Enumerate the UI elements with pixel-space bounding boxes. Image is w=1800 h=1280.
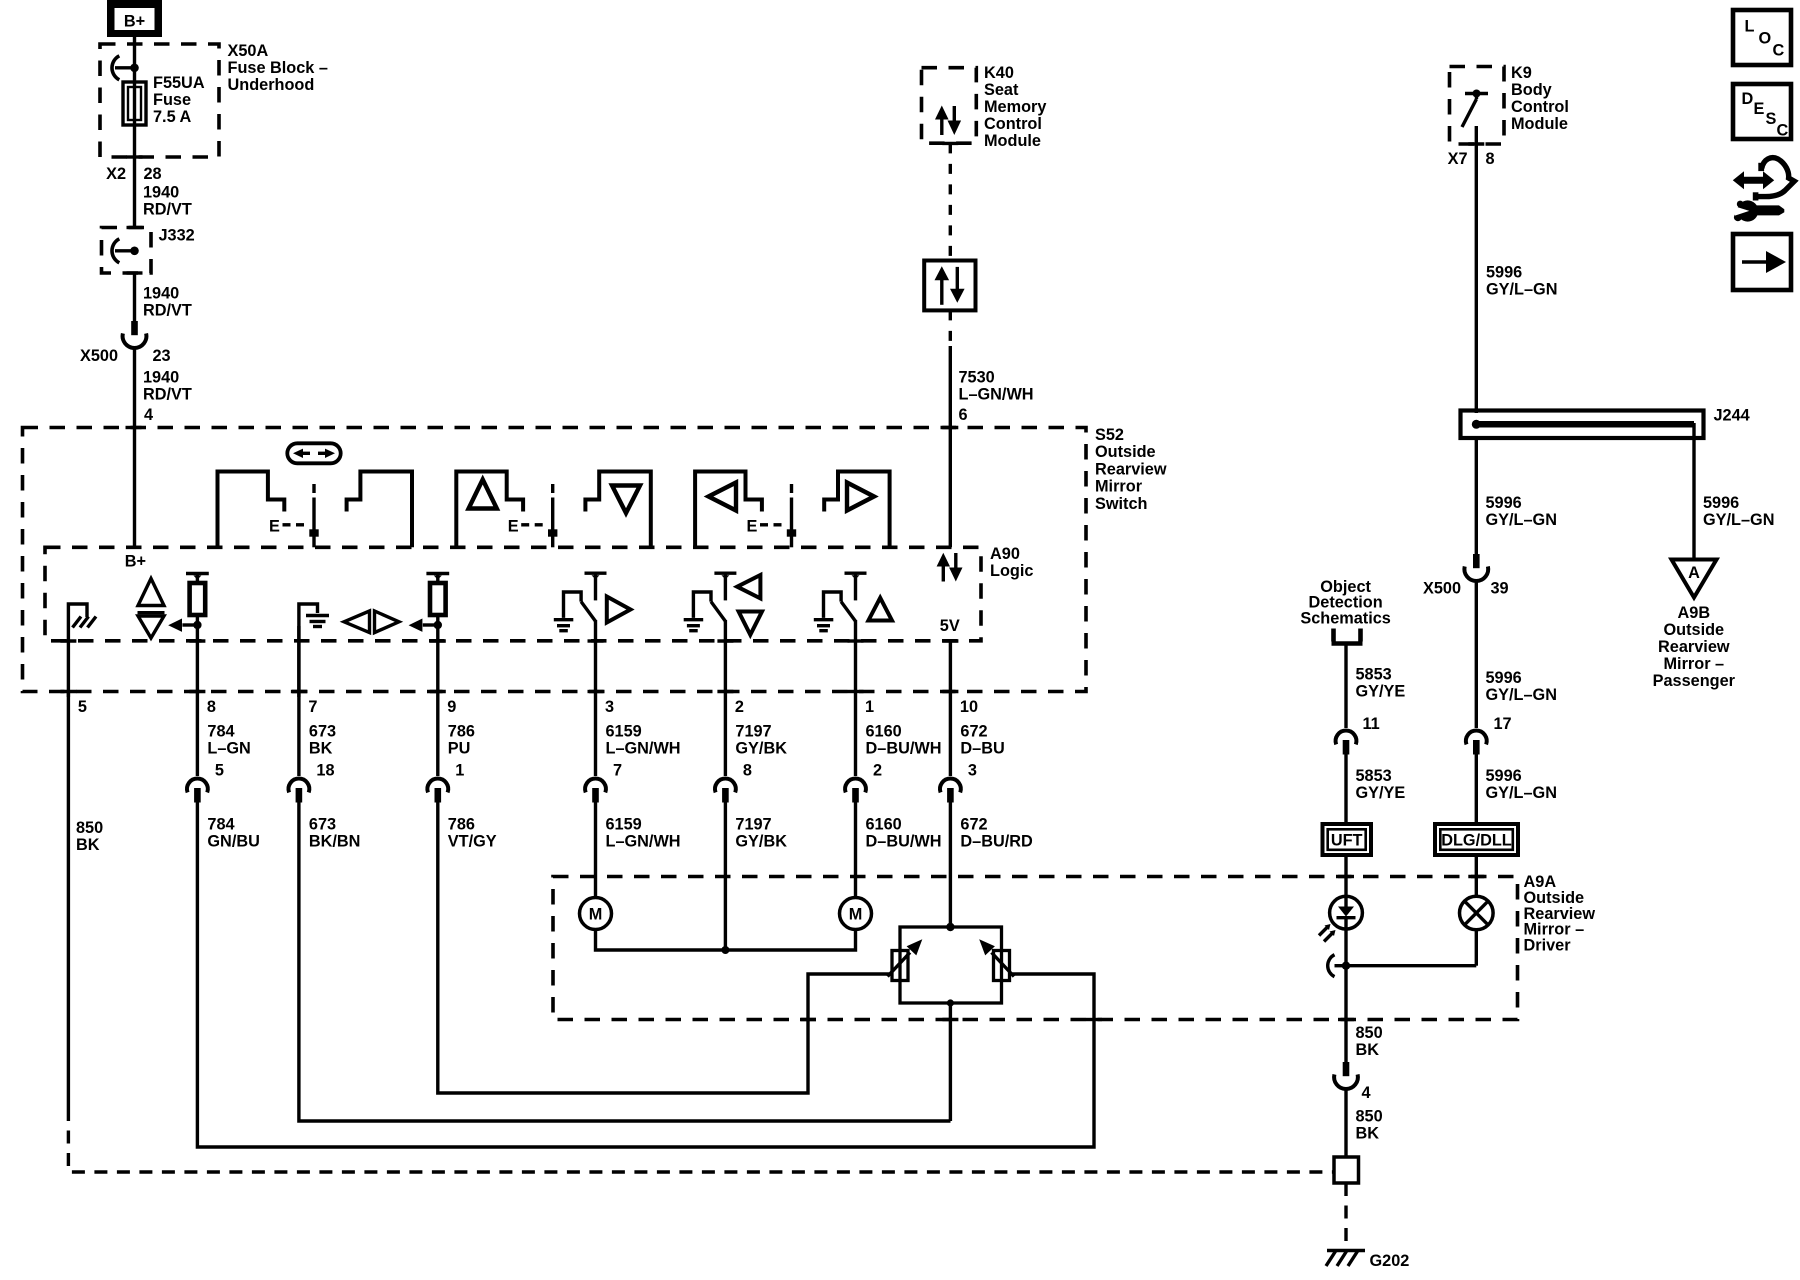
svg-text:1940: 1940 bbox=[143, 369, 179, 387]
in-line connector pin 18 bbox=[289, 779, 310, 803]
svg-text:C: C bbox=[1773, 42, 1785, 60]
in-line connector pin 2 bbox=[845, 779, 866, 803]
svg-text:6159: 6159 bbox=[606, 723, 642, 741]
label 5853 GY/YE bbox=[1356, 767, 1406, 802]
svg-text:L: L bbox=[1745, 18, 1755, 36]
label 786 bbox=[448, 723, 475, 758]
pin label X2 28 bbox=[106, 165, 162, 183]
dashed wire to G202 bbox=[1344, 1183, 1347, 1248]
svg-text:39: 39 bbox=[1491, 580, 1509, 598]
switch contact left/right select right bbox=[347, 472, 412, 548]
motor common wire bbox=[596, 930, 856, 951]
connector pin 11 bbox=[1336, 731, 1357, 755]
edge ticks at wire crossings bbox=[60, 143, 1484, 1019]
linkage label E bbox=[269, 518, 304, 536]
label 5996 GY/L-GN bbox=[1703, 494, 1774, 529]
photodiode (object detection LED) bbox=[1319, 896, 1362, 965]
in-line connector pin 4 bbox=[1334, 1062, 1358, 1089]
svg-text:E: E bbox=[508, 518, 519, 536]
connector terminal in J332 bbox=[112, 239, 139, 263]
function box UFT bbox=[1323, 824, 1372, 855]
dashed wire 850 BK to splice box bbox=[68, 1108, 1334, 1172]
svg-text:L–GN/WH: L–GN/WH bbox=[606, 832, 681, 850]
ground G202 bbox=[1326, 1251, 1365, 1267]
junction motor common bbox=[721, 946, 729, 954]
wire segment pin 7 to connector bbox=[297, 626, 300, 776]
svg-text:5V: 5V bbox=[940, 617, 960, 635]
svg-text:J244: J244 bbox=[1714, 407, 1750, 425]
svg-text:D–BU/WH: D–BU/WH bbox=[866, 739, 942, 757]
wire J244 to A9B bbox=[1692, 423, 1695, 560]
svg-text:Rearview: Rearview bbox=[1095, 460, 1167, 478]
svg-text:5: 5 bbox=[78, 698, 87, 716]
wire B+ into S52 bbox=[133, 428, 136, 548]
svg-text:Module: Module bbox=[1511, 115, 1568, 133]
icon DESC bbox=[1733, 84, 1791, 140]
icon forward arrow bbox=[1733, 234, 1791, 290]
wire 673 BK/BN run bbox=[299, 802, 951, 1122]
svg-text:Underhood: Underhood bbox=[228, 76, 315, 94]
pin label X7 8 bbox=[1448, 150, 1495, 168]
chassis ground (pin 5) bbox=[68, 604, 96, 697]
wire 850 BK below A9A bbox=[1344, 966, 1347, 1062]
svg-text:GY/L–GN: GY/L–GN bbox=[1486, 511, 1557, 529]
mirror position sensor assembly bbox=[900, 923, 1002, 1007]
svg-text:1940: 1940 bbox=[143, 285, 179, 303]
svg-text:GN/BU: GN/BU bbox=[207, 832, 259, 850]
svg-text:PU: PU bbox=[448, 739, 471, 757]
label S52 Outside Rearview Mirror Switch bbox=[1095, 426, 1167, 513]
svg-text:850: 850 bbox=[1356, 1108, 1383, 1126]
switch left/down (pin 2) bbox=[684, 573, 737, 631]
off-page reference bracket bbox=[1332, 629, 1363, 644]
logic block A90 dashed box bbox=[45, 547, 981, 641]
dashed wire below box bbox=[949, 310, 952, 346]
svg-text:4: 4 bbox=[144, 406, 153, 424]
svg-text:L–GN: L–GN bbox=[207, 739, 250, 757]
svg-text:X7: X7 bbox=[1448, 150, 1468, 168]
wire to UFT bbox=[1344, 754, 1347, 825]
label Object Detection Schematics bbox=[1300, 578, 1391, 627]
icon LOC bbox=[1733, 10, 1791, 65]
marker triangle left bbox=[737, 575, 760, 598]
linkage label E bbox=[747, 518, 782, 536]
svg-text:Control: Control bbox=[1511, 98, 1569, 116]
label 5996 GY/L-GN bbox=[1486, 494, 1557, 529]
svg-text:8: 8 bbox=[743, 762, 752, 780]
wire 784 GN/BU run bbox=[197, 802, 1094, 1148]
svg-text:J332: J332 bbox=[159, 227, 195, 245]
position sense resistor (pin 9) bbox=[409, 574, 450, 632]
label X50A Fuse Block - Underhood bbox=[228, 42, 328, 94]
svg-text:C: C bbox=[1777, 122, 1789, 140]
switch contact up/down adjust right bbox=[585, 472, 650, 548]
marker triangle down bbox=[739, 612, 762, 635]
label 5996 GY/L-GN bbox=[1486, 264, 1557, 299]
wire segment pin 10 to connector bbox=[949, 641, 952, 776]
svg-text:4: 4 bbox=[1362, 1084, 1371, 1102]
seat memory mirror-position box bbox=[924, 261, 975, 311]
icon data link arrows and wrench bbox=[1733, 158, 1795, 222]
svg-text:Module: Module bbox=[984, 132, 1041, 150]
svg-text:784: 784 bbox=[207, 723, 234, 741]
in-line connector X500 pin 23 bbox=[123, 321, 147, 348]
svg-text:673: 673 bbox=[309, 723, 336, 741]
svg-text:A: A bbox=[1688, 564, 1700, 582]
svg-text:L–GN/WH: L–GN/WH bbox=[606, 739, 681, 757]
in-line connector pin 8 bbox=[715, 779, 736, 803]
svg-text:Memory: Memory bbox=[984, 98, 1046, 116]
in-line connector pin 3 bbox=[940, 779, 961, 803]
svg-text:BK/BN: BK/BN bbox=[309, 832, 361, 850]
switch contact left/right adjust right bbox=[824, 472, 889, 548]
svg-text:UFT: UFT bbox=[1331, 832, 1363, 850]
wire UFT to photodiode bbox=[1344, 855, 1347, 897]
label 784 bbox=[207, 723, 250, 758]
svg-text:9: 9 bbox=[447, 698, 456, 716]
svg-text:6160: 6160 bbox=[866, 723, 902, 741]
label 6160 D&#8211;BU/WH bbox=[866, 816, 942, 851]
svg-text:GY/BK: GY/BK bbox=[735, 832, 787, 850]
svg-text:7530: 7530 bbox=[959, 369, 995, 387]
potentiometer feed resistor (pin 8) bbox=[168, 574, 209, 632]
marker triangle right bbox=[607, 597, 631, 623]
connector pin 17 bbox=[1466, 731, 1487, 755]
svg-text:D–BU/WH: D–BU/WH bbox=[866, 832, 942, 850]
svg-text:6160: 6160 bbox=[866, 816, 902, 834]
motor M vertical bbox=[840, 898, 872, 930]
svg-text:Outside: Outside bbox=[1095, 443, 1156, 461]
connector terminal in fuse block bbox=[112, 56, 139, 80]
label 1940 RD/VT bbox=[143, 369, 192, 404]
wire 5853 to connector 11 bbox=[1344, 644, 1347, 729]
wire to DLG/DLL bbox=[1475, 754, 1478, 825]
svg-text:1940: 1940 bbox=[143, 184, 179, 202]
svg-text:673: 673 bbox=[309, 816, 336, 834]
label K40 Seat Memory Control Module bbox=[984, 64, 1046, 150]
detent linkage up/down adjust bbox=[548, 484, 557, 547]
svg-text:28: 28 bbox=[144, 165, 162, 183]
sensor common wire down bbox=[949, 1003, 952, 1121]
svg-text:GY/YE: GY/YE bbox=[1356, 784, 1406, 802]
label 6159 bbox=[606, 723, 681, 758]
svg-text:7: 7 bbox=[613, 762, 622, 780]
svg-text:B+: B+ bbox=[125, 553, 146, 571]
svg-text:X500: X500 bbox=[80, 347, 118, 365]
wire segment pin 3 to connector bbox=[594, 620, 597, 776]
data arrows from K40 bbox=[937, 553, 963, 582]
label 7530 L-GN/WH bbox=[959, 369, 1034, 404]
svg-text:DLG/DLL: DLG/DLL bbox=[1441, 832, 1512, 850]
wire J332 to X500 bbox=[133, 273, 136, 321]
mirror A9A dashed box bbox=[553, 877, 1518, 1020]
label 7197 GY/BK bbox=[735, 816, 787, 851]
svg-text:E: E bbox=[269, 518, 280, 536]
detent linkage left/right adjust bbox=[787, 484, 796, 547]
svg-text:10: 10 bbox=[960, 698, 978, 716]
svg-text:672: 672 bbox=[960, 723, 987, 741]
label F55UA Fuse 7.5 A bbox=[153, 74, 205, 126]
mirror select arrows in K40 bbox=[935, 106, 961, 136]
marker triangle down (pair2 right) bbox=[612, 486, 640, 514]
svg-text:E: E bbox=[1754, 100, 1765, 118]
svg-text:Passenger: Passenger bbox=[1653, 672, 1736, 690]
svg-text:X50A: X50A bbox=[228, 42, 269, 60]
wire 7197 to motor common bbox=[724, 802, 727, 951]
svg-text:786: 786 bbox=[448, 723, 475, 741]
label 7197 bbox=[735, 723, 787, 758]
svg-text:1: 1 bbox=[865, 698, 874, 716]
svg-text:D–BU: D–BU bbox=[960, 739, 1004, 757]
svg-text:23: 23 bbox=[153, 347, 171, 365]
label 672 D&#8211;BU/RD bbox=[960, 816, 1033, 851]
svg-text:7197: 7197 bbox=[735, 723, 771, 741]
svg-text:GY/L–GN: GY/L–GN bbox=[1703, 511, 1774, 529]
wire B+ to fuse bbox=[133, 37, 136, 83]
label 673 BK/BN bbox=[309, 816, 361, 851]
driver transistor symbol in K9 bbox=[1462, 90, 1488, 145]
svg-text:RD/VT: RD/VT bbox=[143, 301, 192, 319]
svg-text:Control: Control bbox=[984, 115, 1042, 133]
label 786 VT/GY bbox=[448, 816, 497, 851]
svg-text:BK: BK bbox=[1356, 1124, 1380, 1142]
wire DLG/DLL to lamp bbox=[1475, 855, 1478, 897]
mirror select oval indicator bbox=[287, 443, 340, 463]
svg-text:Rearview: Rearview bbox=[1658, 638, 1730, 656]
mirror A9B symbol bbox=[1672, 560, 1717, 598]
motor M horizontal bbox=[580, 898, 612, 930]
in-line connector X500 pin 39 bbox=[1464, 554, 1488, 581]
switch S52 dashed box bbox=[23, 428, 1087, 692]
label 6159 L&#8211;GN/WH bbox=[606, 816, 681, 851]
svg-text:6: 6 bbox=[959, 406, 968, 424]
svg-text:5996: 5996 bbox=[1703, 494, 1739, 512]
splice pack J244 bbox=[1461, 411, 1704, 439]
label 6160 bbox=[866, 723, 942, 758]
svg-text:GY/YE: GY/YE bbox=[1356, 683, 1406, 701]
svg-text:B+: B+ bbox=[124, 13, 145, 31]
label 784 GN/BU bbox=[207, 816, 259, 851]
label 5853 GY/YE bbox=[1356, 666, 1406, 701]
svg-text:BK: BK bbox=[76, 836, 100, 854]
svg-text:Fuse: Fuse bbox=[153, 91, 191, 109]
svg-text:E: E bbox=[747, 518, 758, 536]
wire J244 to X500 pin 39 bbox=[1475, 438, 1478, 554]
svg-text:5996: 5996 bbox=[1486, 767, 1522, 785]
switch contact left/right adjust left bbox=[695, 472, 762, 548]
svg-text:G202: G202 bbox=[1370, 1252, 1410, 1270]
label 5996 GY/L-GN bbox=[1486, 767, 1557, 802]
svg-text:F55UA: F55UA bbox=[153, 74, 205, 92]
svg-text:K40: K40 bbox=[984, 64, 1014, 82]
linkage label E bbox=[508, 518, 543, 536]
svg-text:2: 2 bbox=[873, 762, 882, 780]
svg-text:18: 18 bbox=[316, 762, 334, 780]
label 850 BK bbox=[1356, 1108, 1383, 1143]
svg-text:Mirror –: Mirror – bbox=[1663, 655, 1724, 673]
svg-text:GY/L–GN: GY/L–GN bbox=[1486, 686, 1557, 704]
switch right (pin 3) bbox=[554, 573, 607, 631]
svg-text:11: 11 bbox=[1363, 715, 1380, 733]
module K40 dashed box bbox=[922, 68, 977, 144]
label 5996 GY/L-GN bbox=[1486, 669, 1557, 704]
svg-text:GY/BK: GY/BK bbox=[735, 739, 787, 757]
svg-text:BK: BK bbox=[309, 739, 333, 757]
svg-text:BK: BK bbox=[1356, 1041, 1380, 1059]
label A90 Logic bbox=[990, 545, 1033, 580]
wire 6160 to motor bbox=[854, 802, 857, 898]
label A9B Outside Rearview Mirror - Passenger bbox=[1653, 604, 1736, 690]
marker triangle up bbox=[868, 598, 892, 621]
detent linkage left/right select bbox=[309, 484, 318, 547]
svg-text:6159: 6159 bbox=[606, 816, 642, 834]
svg-text:X500: X500 bbox=[1423, 580, 1461, 598]
svg-text:5996: 5996 bbox=[1486, 264, 1522, 282]
splice junction in A9A bbox=[1328, 955, 1477, 977]
fuse block X50A dashed box bbox=[100, 44, 219, 157]
svg-text:786: 786 bbox=[448, 816, 475, 834]
battery terminal B+ bbox=[107, 0, 162, 37]
svg-text:5996: 5996 bbox=[1486, 669, 1522, 687]
svg-text:8: 8 bbox=[1486, 150, 1495, 168]
svg-text:RD/VT: RD/VT bbox=[143, 200, 192, 218]
svg-text:Schematics: Schematics bbox=[1300, 609, 1391, 627]
earth ground (pin 7) bbox=[299, 604, 329, 697]
svg-text:3: 3 bbox=[968, 762, 977, 780]
svg-text:A9B: A9B bbox=[1678, 604, 1711, 622]
svg-text:672: 672 bbox=[960, 816, 987, 834]
label 850 BK bbox=[76, 819, 103, 854]
wire 6159 to motor bbox=[594, 802, 597, 898]
marker triangle left (pair3 left) bbox=[709, 483, 737, 511]
svg-text:Logic: Logic bbox=[990, 562, 1033, 580]
wire segment pin 9 to connector bbox=[436, 625, 439, 776]
switch contact up/down adjust left bbox=[456, 472, 523, 548]
svg-text:GY/L–GN: GY/L–GN bbox=[1486, 784, 1557, 802]
svg-text:7197: 7197 bbox=[735, 816, 771, 834]
svg-text:17: 17 bbox=[1494, 715, 1512, 733]
svg-text:GY/L–GN: GY/L–GN bbox=[1486, 280, 1557, 298]
wire segment pin 8 to connector bbox=[196, 625, 199, 776]
module K9 dashed box bbox=[1450, 67, 1505, 145]
wire X500 to connector 17 bbox=[1475, 583, 1478, 729]
in-line connector pin 1 bbox=[427, 779, 448, 803]
wire segment pin 2 to connector bbox=[724, 620, 727, 776]
marker triangle up (pair2 left) bbox=[469, 480, 497, 509]
svg-text:A90: A90 bbox=[990, 545, 1020, 563]
svg-text:5: 5 bbox=[215, 762, 224, 780]
indicator triangles left/right bbox=[344, 611, 399, 633]
fuse F55UA 7.5A bbox=[123, 82, 146, 125]
label 673 bbox=[309, 723, 336, 758]
wire to ground splice box bbox=[1344, 1091, 1347, 1158]
svg-text:5853: 5853 bbox=[1356, 767, 1392, 785]
marker triangle right (pair3 right) bbox=[847, 483, 874, 511]
svg-text:O: O bbox=[1759, 30, 1772, 48]
label 850 BK bbox=[1356, 1024, 1383, 1059]
svg-text:S52: S52 bbox=[1095, 426, 1124, 444]
svg-text:Seat: Seat bbox=[984, 81, 1019, 99]
svg-text:K9: K9 bbox=[1511, 64, 1532, 82]
switch contact left/right select left bbox=[218, 472, 285, 548]
svg-text:2: 2 bbox=[735, 698, 744, 716]
svg-text:850: 850 bbox=[1356, 1024, 1383, 1042]
switch up (pin 1) bbox=[814, 573, 867, 631]
splice J332 dashed box bbox=[102, 228, 152, 274]
svg-text:7: 7 bbox=[308, 698, 317, 716]
svg-text:D: D bbox=[1742, 90, 1754, 108]
wire 7530 to S52 bbox=[949, 346, 952, 547]
svg-text:Mirror: Mirror bbox=[1095, 478, 1143, 496]
wire fuse to J332 bbox=[133, 125, 136, 228]
svg-text:5853: 5853 bbox=[1356, 666, 1392, 684]
svg-text:784: 784 bbox=[207, 816, 234, 834]
potentiometer left bbox=[888, 939, 923, 980]
in-line connector pin 5 bbox=[187, 779, 208, 803]
wire 672 to position sensor bbox=[949, 802, 952, 928]
label A9A Outside Rearview Mirror - Driver bbox=[1524, 873, 1596, 955]
svg-text:Driver: Driver bbox=[1524, 937, 1572, 955]
wire 5996 K9 to J244 bbox=[1475, 144, 1478, 413]
label 672 bbox=[960, 723, 1004, 758]
wire X500 to switch S52 bbox=[133, 350, 136, 428]
label 1940 RD/VT bbox=[143, 285, 192, 320]
lamp (mirror turn signal) bbox=[1460, 896, 1494, 966]
svg-text:Fuse Block –: Fuse Block – bbox=[228, 59, 328, 77]
svg-text:RD/VT: RD/VT bbox=[143, 385, 192, 403]
svg-text:8: 8 bbox=[207, 698, 216, 716]
dashed wire K40 to logic block bbox=[949, 143, 952, 260]
svg-text:7.5 A: 7.5 A bbox=[153, 108, 192, 126]
in-line connector pin 7 bbox=[585, 779, 606, 803]
svg-text:D–BU/RD: D–BU/RD bbox=[960, 832, 1033, 850]
svg-text:Body: Body bbox=[1511, 81, 1552, 99]
svg-text:VT/GY: VT/GY bbox=[448, 832, 497, 850]
svg-text:L–GN/WH: L–GN/WH bbox=[959, 385, 1034, 403]
svg-text:Outside: Outside bbox=[1663, 621, 1724, 639]
potentiometer right bbox=[979, 939, 1014, 980]
wire 850 BK (pin 5) bbox=[67, 692, 70, 1109]
svg-text:850: 850 bbox=[76, 819, 103, 837]
svg-text:3: 3 bbox=[605, 698, 614, 716]
svg-text:Switch: Switch bbox=[1095, 495, 1147, 513]
label K9 Body Control Module bbox=[1511, 64, 1569, 133]
ground splice box bbox=[1334, 1157, 1359, 1183]
svg-text:S: S bbox=[1766, 110, 1777, 128]
wire segment pin 1 to connector bbox=[854, 620, 857, 776]
svg-text:1: 1 bbox=[455, 762, 464, 780]
label 1940 RD/VT bbox=[143, 184, 192, 219]
wire 786 VT/GY run bbox=[438, 802, 892, 1094]
function box DLG/DLL bbox=[1435, 824, 1518, 855]
svg-text:X2: X2 bbox=[106, 165, 126, 183]
svg-text:5996: 5996 bbox=[1486, 494, 1522, 512]
indicator triangles up/down (mirror select) bbox=[138, 579, 165, 639]
